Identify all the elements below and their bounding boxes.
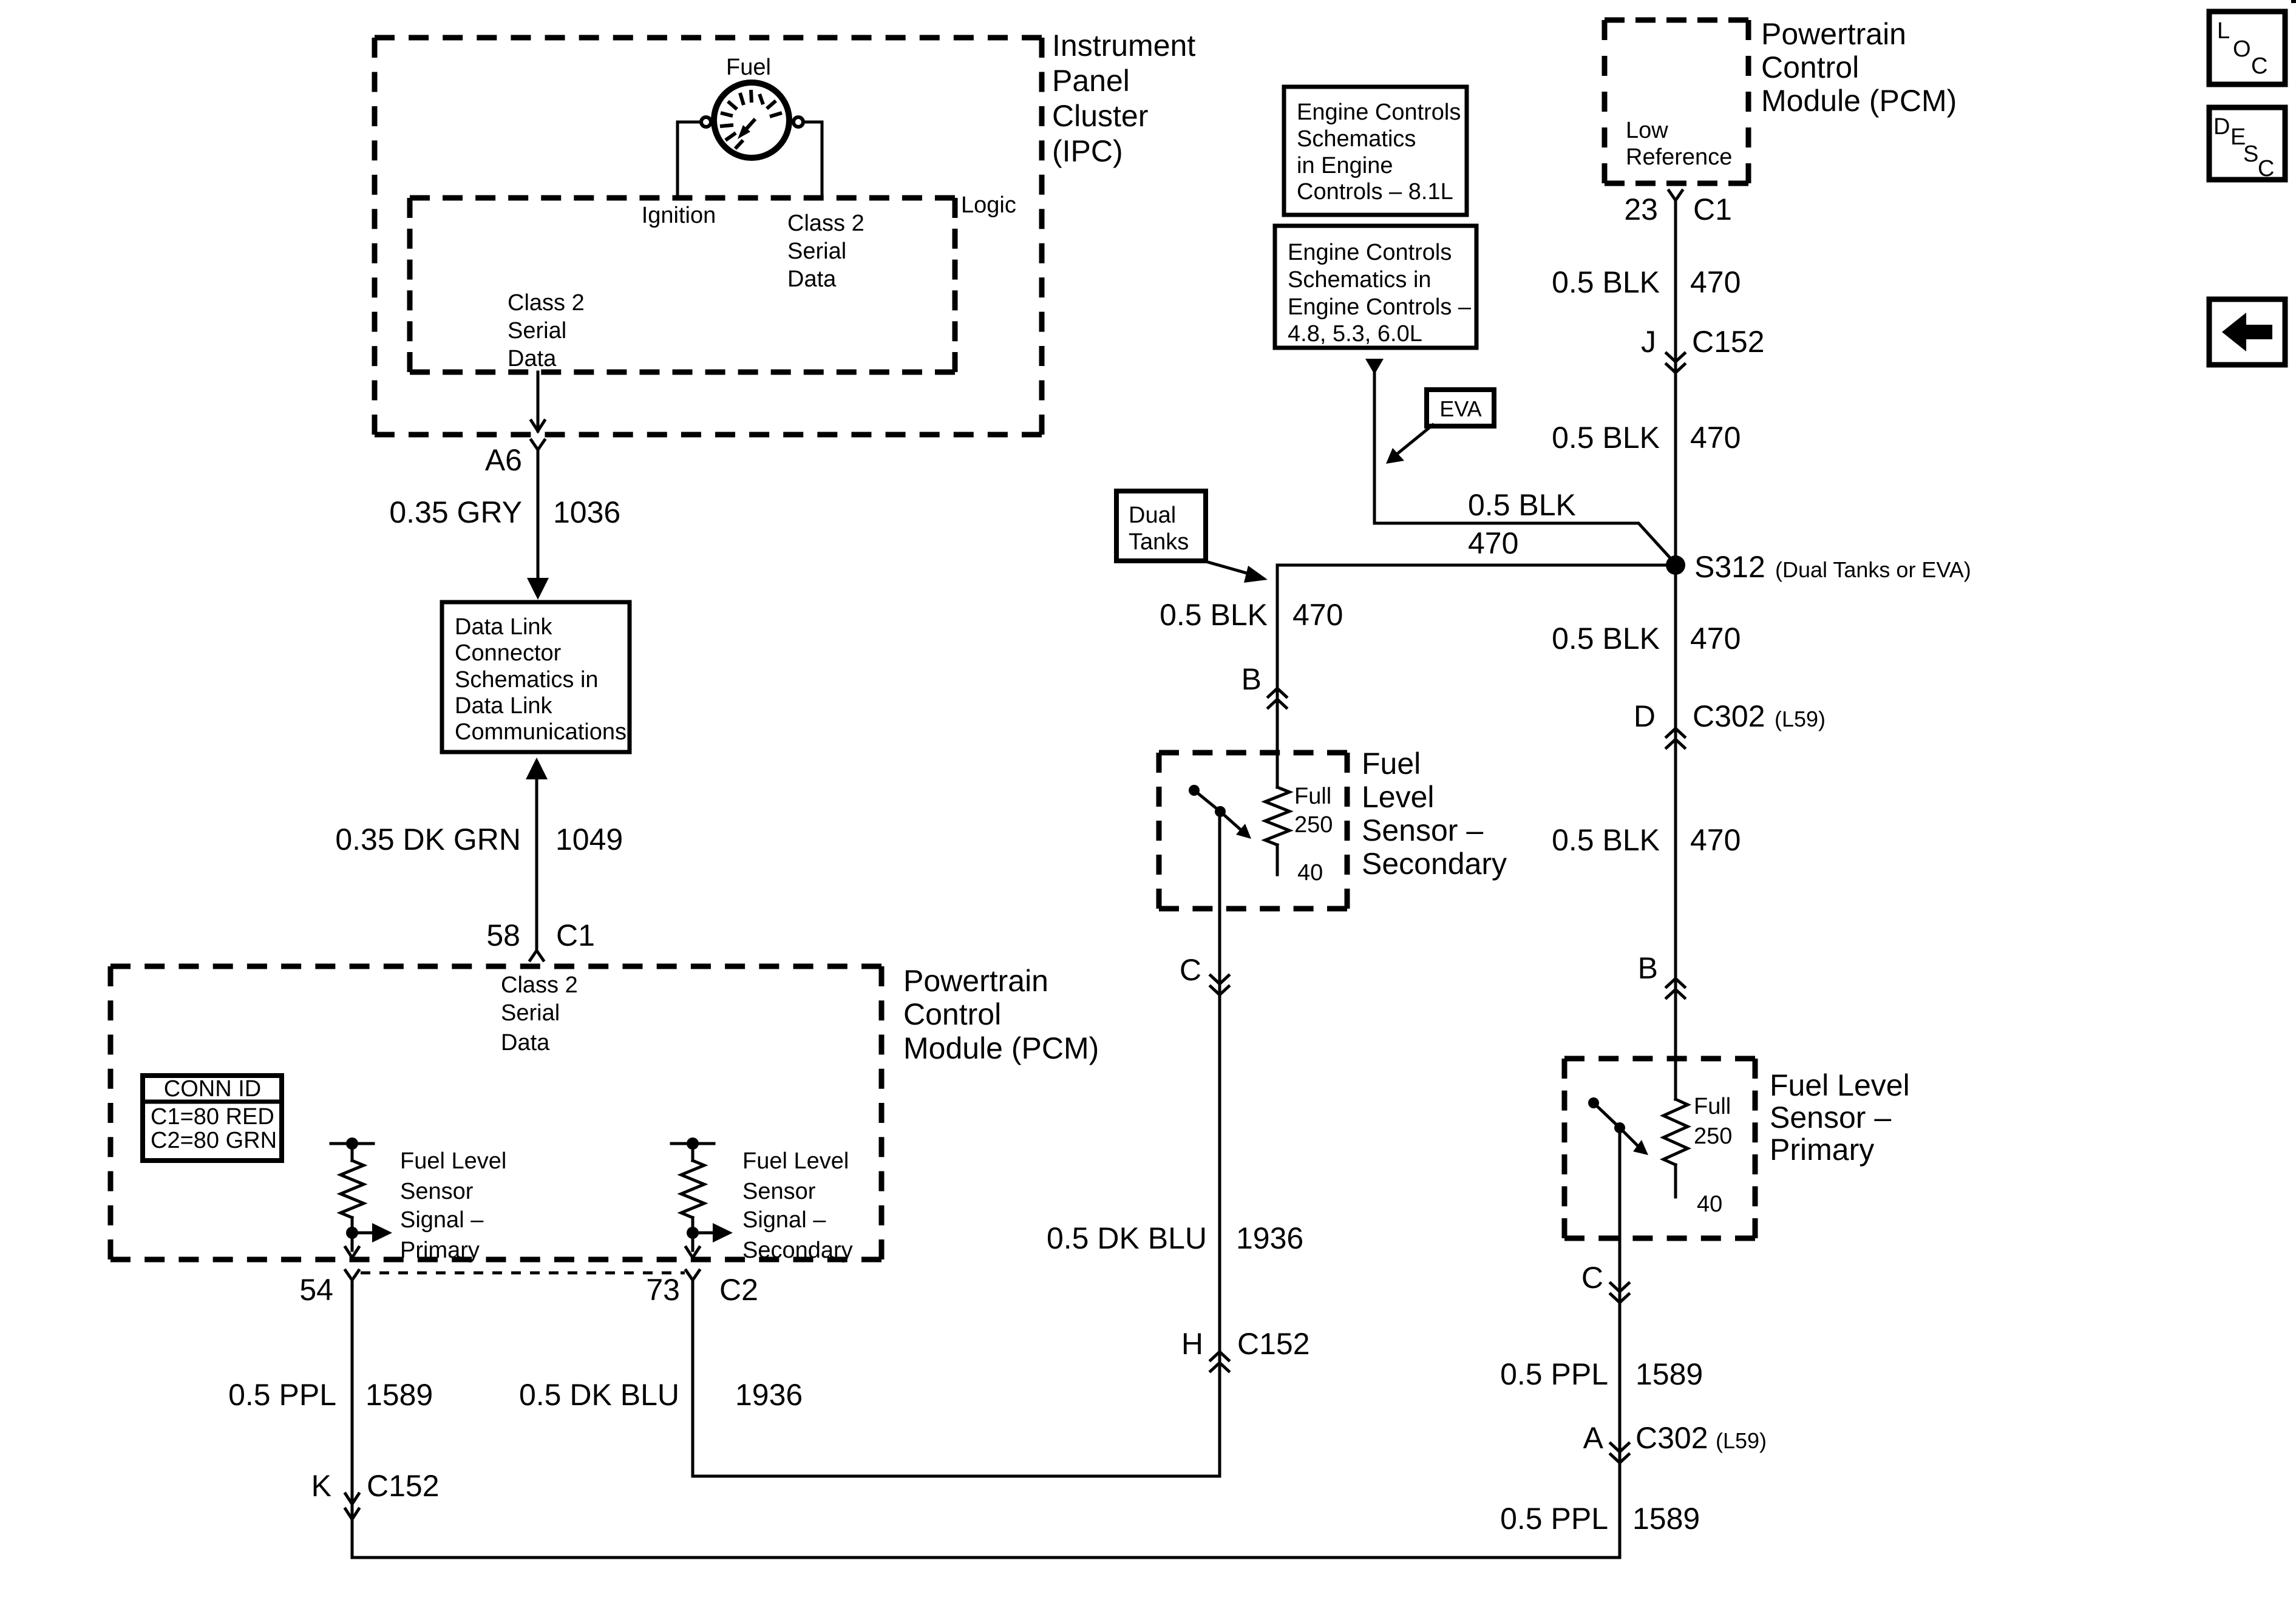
svg-text:Class 2: Class 2 [501,972,578,998]
connector D C302 (L59) [1634,699,1826,748]
svg-text:1936: 1936 [735,1378,803,1412]
svg-text:C: C [1180,953,1201,987]
label Class 2 Serial Data (gauge lead) [787,211,864,292]
svg-text:0.5 PPL: 0.5 PPL [1500,1502,1608,1536]
DESC tag [2209,107,2285,181]
label 0.5 DK BLU 1936 (left) [519,1378,803,1412]
svg-text:0.5 PPL: 0.5 PPL [228,1378,336,1412]
svg-text:Logic: Logic [961,192,1016,218]
svg-text:Primary: Primary [1770,1133,1874,1167]
svg-text:0.5 PPL: 0.5 PPL [1500,1357,1608,1391]
wire 470: dual tanks branch to secondary sender [1277,565,1676,787]
svg-text:Data: Data [508,346,557,371]
svg-text:Engine Controls –: Engine Controls – [1288,294,1472,320]
svg-text:C: C [1581,1261,1603,1295]
svg-text:Connector: Connector [455,640,562,666]
svg-text:Ignition: Ignition [642,203,716,228]
wire 1936: cross run and riser to secondary sensor [693,812,1220,1476]
svg-text:0.5 BLK: 0.5 BLK [1468,488,1576,522]
label 0.5 BLK 470 (below C152) [1552,421,1741,455]
svg-text:73: 73 [646,1273,680,1307]
PCM caption (top right) [1761,17,1957,118]
svg-text:470: 470 [1292,598,1343,632]
svg-text:D: D [2213,114,2230,140]
svg-text:1036: 1036 [553,495,620,529]
svg-text:O: O [2233,36,2251,62]
svg-text:470: 470 [1690,622,1741,656]
svg-text:C1: C1 [556,918,595,952]
svg-text:Reference: Reference [1626,144,1732,170]
label Fuel Level Sensor Signal - Secondary [742,1148,853,1263]
label Low Reference [1626,118,1732,170]
svg-text:23: 23 [1624,192,1658,226]
label 0.5 BLK 470 (C302 to sender) [1552,823,1741,857]
svg-text:Engine Controls: Engine Controls [1288,240,1452,265]
wire 1936: 0.5 DK BLU pin 73 drop [691,1280,695,1476]
svg-text:C: C [2251,53,2267,79]
svg-text:Sensor –: Sensor – [1362,813,1483,847]
svg-text:0.5 DK BLU: 0.5 DK BLU [1047,1221,1207,1255]
svg-text:1589: 1589 [1632,1502,1700,1536]
svg-text:Full: Full [1694,1094,1731,1119]
svg-text:Fuel Level: Fuel Level [742,1148,849,1174]
wire: class 2 serial data from logic to A6 [531,372,545,431]
svg-text:B: B [1638,951,1658,985]
powertrain control module (PCM) box [110,966,881,1259]
svg-text:Primary: Primary [400,1238,480,1263]
IPC logic box [410,198,955,372]
svg-text:Panel: Panel [1052,64,1130,98]
svg-text:Fuel: Fuel [1362,747,1421,781]
label 0.5 PPL 1589 (lower) [1500,1502,1700,1536]
svg-text:C1=80 RED: C1=80 RED [151,1104,274,1130]
svg-text:Level: Level [1362,780,1435,814]
svg-text:Communications: Communications [455,719,627,745]
svg-text:0.5 BLK: 0.5 BLK [1552,823,1660,857]
connector A C302 (L59) [1583,1421,1767,1463]
connector pin 73 C2 [646,1270,758,1307]
connector J C152 [1641,325,1765,373]
connector C (secondary sensor) [1180,953,1229,995]
connector 58 C1 (PCM) [486,918,595,960]
svg-text:C302: C302 [1635,1421,1708,1455]
wire 1589: 0.5 PPL pin 54 drop [351,1280,354,1558]
CONN ID table [143,1076,282,1161]
svg-text:(L59): (L59) [1775,707,1826,731]
svg-text:C152: C152 [367,1469,440,1503]
svg-text:0.5 BLK: 0.5 BLK [1552,622,1660,656]
fuel level sensor primary box [1564,1059,1755,1238]
svg-text:C1: C1 [1693,192,1732,226]
svg-text:S312: S312 [1694,550,1765,584]
svg-text:0.5 BLK: 0.5 BLK [1160,598,1268,632]
svg-text:in Engine: in Engine [1297,153,1393,178]
fuel level sensor secondary caption [1362,747,1507,881]
wire 1589: bottom run to A C302 [352,1466,1620,1558]
label 0.35 GRY 1036 [389,495,620,529]
label 0.5 PPL 1589 (left) [228,1378,433,1412]
data link connector schematics box [442,602,630,752]
page corner mark [2291,0,2296,3]
switch: secondary sender wiper [1189,785,1251,839]
svg-text:Data Link: Data Link [455,693,553,719]
svg-text:Schematics in: Schematics in [455,667,599,693]
IPC caption [1052,29,1195,168]
svg-text:0.35 GRY: 0.35 GRY [389,495,522,529]
label 0.5 BLK 470 (PCM segment) [1552,265,1741,299]
svg-text:Sensor –: Sensor – [1770,1100,1891,1134]
instrument panel cluster (IPC) box [375,38,1042,435]
svg-text:C152: C152 [1692,325,1765,359]
svg-text:C2: C2 [719,1273,758,1307]
svg-text:Engine Controls: Engine Controls [1297,100,1461,125]
powertrain control module (PCM) box top-right [1605,20,1748,183]
EVA tag [1386,390,1494,464]
svg-text:Class 2: Class 2 [508,290,585,316]
svg-text:Sensor: Sensor [742,1179,816,1204]
svg-text:1936: 1936 [1236,1221,1303,1255]
connector K C152 [311,1469,440,1519]
svg-text:C: C [2258,156,2274,181]
label Logic [961,192,1016,218]
svg-text:A6: A6 [485,443,522,477]
svg-text:Schematics in: Schematics in [1288,267,1432,293]
dual tanks tag [1116,491,1268,583]
svg-text:Low: Low [1626,118,1668,143]
svg-text:40: 40 [1297,860,1323,886]
svg-text:Powertrain: Powertrain [903,964,1048,998]
C2 connector line [361,1272,685,1275]
resistor: fuel level sensor signal secondary (in PCM) [671,1137,733,1258]
svg-text:Data Link: Data Link [455,614,553,640]
svg-text:A: A [1583,1421,1604,1455]
resistor: fuel level sensor signal primary (in PCM) [331,1137,392,1258]
svg-text:470: 470 [1690,265,1741,299]
svg-text:Signal –: Signal – [400,1207,484,1233]
engine controls schematics 8.1L box [1284,87,1467,215]
wire: gauge ignition lead [678,122,701,198]
fuel gauge [701,55,803,158]
label 0.5 BLK 470 (S312 to C302) [1552,622,1741,656]
label Ignition [642,203,716,228]
label 0.5 PPL 1589 (upper) [1500,1357,1703,1391]
wire 470: 0.5 BLK PCM to primary sender [1674,200,1677,1099]
svg-text:58: 58 [486,918,520,952]
svg-text:4.8, 5.3, 6.0L: 4.8, 5.3, 6.0L [1288,321,1422,347]
svg-text:Module (PCM): Module (PCM) [1761,84,1957,118]
resistor: primary sender [1663,1099,1688,1197]
connector B (primary) [1638,951,1685,998]
svg-text:0.5 DK BLU: 0.5 DK BLU [519,1378,679,1412]
svg-text:Class 2: Class 2 [787,211,864,236]
svg-text:Control: Control [1761,50,1859,84]
svg-text:B: B [1241,662,1262,696]
svg-text:(L59): (L59) [1716,1428,1767,1453]
svg-text:Serial: Serial [787,239,846,264]
svg-text:C152: C152 [1237,1327,1310,1361]
svg-text:EVA: EVA [1439,396,1481,421]
label Full 250 40 (primary) [1694,1094,1732,1217]
connector B (secondary) [1241,662,1286,708]
svg-text:Module (PCM): Module (PCM) [903,1031,1099,1065]
engine controls schematics 4.8 5.3 6.0L box [1275,226,1476,348]
svg-text:S: S [2243,141,2258,167]
svg-text:C2=80 GRN: C2=80 GRN [151,1128,277,1153]
svg-text:C302: C302 [1693,699,1765,733]
svg-text:Dual: Dual [1129,503,1176,528]
svg-text:Full: Full [1294,784,1331,809]
svg-text:(IPC): (IPC) [1052,134,1123,168]
connector pin 23 C1 [1624,191,1732,226]
svg-text:Data: Data [787,266,837,292]
svg-text:L: L [2217,18,2230,44]
svg-text:250: 250 [1294,812,1333,838]
label 0.5 BLK 470 (EVA branch) [1468,488,1576,560]
PCM caption [903,964,1099,1065]
connector pin 54 [299,1270,359,1307]
svg-text:(Dual Tanks or EVA): (Dual Tanks or EVA) [1775,557,1971,582]
svg-text:1589: 1589 [365,1378,433,1412]
svg-text:K: K [311,1469,331,1503]
label 0.5 DK BLU 1936 (riser) [1047,1221,1303,1255]
fuel level sensor primary caption [1770,1068,1910,1167]
svg-text:Fuel: Fuel [726,55,771,80]
svg-text:Serial: Serial [501,1000,560,1026]
wire 1049: 0.35 DK GRN [526,758,548,951]
svg-text:CONN ID: CONN ID [164,1076,261,1102]
svg-text:H: H [1181,1327,1203,1361]
svg-text:Signal –: Signal – [742,1207,826,1233]
svg-text:Instrument: Instrument [1052,29,1195,63]
svg-text:Secondary: Secondary [742,1238,853,1263]
LOC tag [2209,12,2285,84]
svg-text:54: 54 [299,1273,333,1307]
connector H C152 [1181,1327,1310,1371]
wire: primary wiper drop 0.5 PPL [1618,1128,1622,1558]
svg-text:1589: 1589 [1635,1357,1703,1391]
node S312 [1666,550,1971,584]
label Fuel Level Sensor Signal - Primary [400,1148,506,1263]
fuel level sensor secondary box [1159,753,1347,909]
svg-text:Controls – 8.1L: Controls – 8.1L [1297,179,1453,205]
svg-text:Data: Data [501,1030,550,1056]
switch: primary sender wiper [1588,1097,1648,1155]
svg-text:Control: Control [903,997,1001,1031]
svg-text:Fuel Level: Fuel Level [400,1148,506,1174]
label 0.35 DK GRN 1049 [335,822,623,856]
resistor: secondary sender [1265,787,1289,875]
svg-text:0.5 BLK: 0.5 BLK [1552,265,1660,299]
wire 470: EVA branch [1365,359,1676,564]
back arrow tag [2209,299,2285,365]
svg-text:Cluster: Cluster [1052,99,1148,133]
connector A6 (IPC) [485,440,545,477]
svg-text:D: D [1634,699,1656,733]
svg-text:J: J [1641,325,1656,359]
svg-text:470: 470 [1690,421,1741,455]
label Class 2 Serial Data (logic output) [508,290,585,371]
svg-text:Tanks: Tanks [1129,529,1189,555]
svg-text:1049: 1049 [555,822,623,856]
svg-text:Fuel Level: Fuel Level [1770,1068,1910,1102]
svg-text:Serial: Serial [508,318,566,344]
svg-text:0.35 DK GRN: 0.35 DK GRN [335,822,521,856]
wire 1036: 0.35 GRY [527,450,549,600]
svg-text:250: 250 [1694,1124,1732,1149]
svg-text:470: 470 [1468,526,1518,560]
svg-text:Secondary: Secondary [1362,847,1507,881]
svg-text:Schematics: Schematics [1297,126,1416,152]
svg-text:Powertrain: Powertrain [1761,17,1906,51]
svg-text:Sensor: Sensor [400,1179,474,1204]
wire: gauge class 2 serial data lead [806,122,822,198]
connector C (primary) [1581,1261,1629,1303]
label Class 2 Serial Data (PCM) [501,972,578,1056]
svg-text:470: 470 [1690,823,1741,857]
svg-text:0.5 BLK: 0.5 BLK [1552,421,1660,455]
label 0.5 BLK 470 (dual tanks branch) [1160,598,1343,632]
label Full 250 40 (secondary) [1294,784,1333,886]
svg-text:40: 40 [1697,1192,1722,1217]
